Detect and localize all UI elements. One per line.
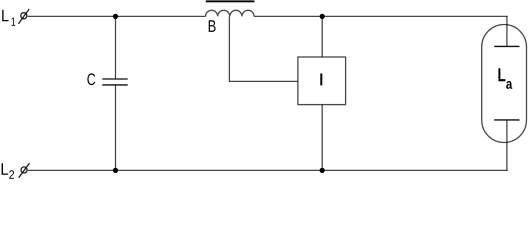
junction: top rail / capacitor C [113, 14, 118, 19]
wire: top rail junction down to ignitor I [321, 16, 323, 57]
terminal L1 (line input, circle with oblique stroke) [18, 9, 29, 24]
capacitor C (compensation capacitor across supply) [102, 16, 127, 170]
wire: ignitor I down to bottom rail [321, 105, 323, 171]
label B [209, 20, 216, 32]
ignitor I (box) [298, 57, 346, 105]
junction: bottom rail / capacitor C [113, 168, 118, 173]
label C [87, 73, 95, 85]
label I [320, 73, 322, 85]
label La [498, 68, 512, 89]
junction: top rail / ignitor I [320, 14, 325, 19]
lamp La top electrode (lead and plate) [494, 16, 519, 47]
label L2 [2, 163, 15, 178]
ballast choke B (inductor, 4 arcs with magnetic core bar) [206, 0, 255, 16]
lamp La bottom electrode (plate and lead) [494, 120, 519, 171]
wire: top rail, ballast B to lamp corner [254, 15, 507, 17]
wire: top rail, terminal L1 to ballast B [28, 15, 206, 17]
wire: ballast tap down and right to ignitor I [229, 16, 298, 81]
label L1 [2, 10, 15, 26]
lamp La (discharge lamp, stadium-shaped bulb) [482, 25, 527, 143]
junction: bottom rail / ignitor I [320, 168, 325, 173]
terminal L2 (line input, circle with oblique stroke) [19, 163, 30, 178]
wire: bottom rail, terminal L2 to lamp La [28, 169, 508, 171]
